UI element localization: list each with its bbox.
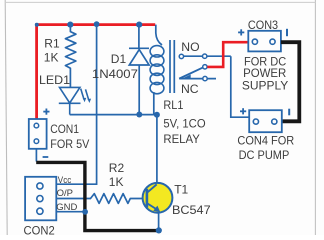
transistor T1 BC547	[143, 183, 173, 213]
svg-text:LED1: LED1	[39, 73, 70, 87]
wire: coil bottom lead	[153, 92, 155, 115]
svg-text:CON1: CON1	[50, 122, 79, 136]
wire: O/P pin line to R2	[56, 198, 91, 200]
svg-text:D1: D1	[111, 52, 127, 66]
svg-text:NO: NO	[181, 40, 199, 54]
relay arm arrowhead	[182, 75, 191, 79]
junction dot GND on black wire	[82, 209, 88, 215]
junction dot R1 top	[67, 22, 73, 28]
svg-text:BC547: BC547	[172, 203, 211, 217]
wire: CON1 minus pin stub	[35, 149, 37, 162]
svg-text:T1: T1	[174, 183, 188, 197]
junction dot collector node	[154, 112, 160, 118]
junction dot bus corner	[35, 23, 39, 27]
connector CON3	[248, 31, 281, 52]
diode D1 1N4007	[129, 25, 149, 115]
relay arm	[179, 67, 203, 78]
svg-text:1N4007: 1N4007	[92, 67, 138, 81]
wire: black CON3 to CON4	[281, 42, 299, 121]
svg-text:O/P: O/P	[57, 188, 73, 199]
junction dot emitter-ground	[156, 227, 162, 233]
svg-text:R2: R2	[109, 161, 125, 175]
CON1 minus sign	[43, 156, 49, 158]
CON4 minus sign (vertical)	[288, 109, 290, 116]
wire: collector vertical down to T1	[156, 115, 158, 184]
wire: +5V top bus (red)	[37, 25, 156, 119]
wire: emitter lead	[158, 212, 160, 231]
wire: collector node horizontal (LED/D1/coil junction wire)	[70, 114, 157, 116]
svg-text:NC: NC	[181, 82, 199, 96]
connector CON1	[29, 119, 47, 149]
svg-text:SUPPLY: SUPPLY	[242, 79, 288, 93]
svg-text:CON3: CON3	[248, 18, 278, 32]
svg-text:1K: 1K	[44, 51, 59, 65]
connector CON4	[249, 110, 282, 132]
svg-text:1K: 1K	[109, 175, 124, 189]
contact circle pole	[203, 65, 207, 69]
svg-text:RL1: RL1	[163, 98, 183, 112]
wire: GND pin line	[56, 211, 85, 213]
wire: red pole wire to CON3	[207, 42, 248, 67]
wire: NO contact down to CON4	[231, 56, 250, 117]
resistor R1 1K	[65, 27, 76, 88]
CON4 plus sign	[240, 108, 246, 114]
wire: +5V branch down to Vcc pin	[56, 24, 96, 184]
CON3 plus sign	[238, 29, 244, 35]
contact circle NC	[203, 76, 207, 80]
contact circle NO right	[203, 54, 207, 58]
svg-text:RELAY: RELAY	[163, 132, 199, 146]
resistor R2 1K	[91, 194, 147, 204]
contact circle NO left	[179, 54, 183, 58]
relay core lines	[169, 40, 171, 93]
svg-text:R1: R1	[44, 37, 60, 51]
junction dot D1 top	[136, 22, 142, 28]
CON1 plus sign	[43, 109, 49, 115]
relay RL1 coil	[150, 46, 164, 94]
svg-text:5V, 1CO: 5V, 1CO	[163, 117, 205, 131]
junction dot D1 anode	[136, 112, 142, 118]
svg-text:CON4 FOR: CON4 FOR	[237, 133, 294, 147]
wire: ground black wire (CON1- to emitter)	[36, 162, 159, 230]
wire: blue lead from bus end into relay coil	[156, 25, 162, 45]
junction dot Vcc branch	[94, 21, 100, 27]
LED1	[59, 87, 91, 114]
relay contact NO line	[181, 55, 230, 57]
svg-text:CON2: CON2	[24, 223, 55, 235]
CON3 minus sign (vertical)	[286, 29, 288, 36]
connector CON2	[25, 177, 56, 221]
svg-text:FOR 5V: FOR 5V	[50, 137, 90, 151]
relay pole line NC	[179, 78, 216, 80]
svg-text:Vcc: Vcc	[58, 175, 72, 186]
svg-text:GND: GND	[56, 202, 77, 213]
svg-text:DC PUMP: DC PUMP	[239, 148, 290, 162]
